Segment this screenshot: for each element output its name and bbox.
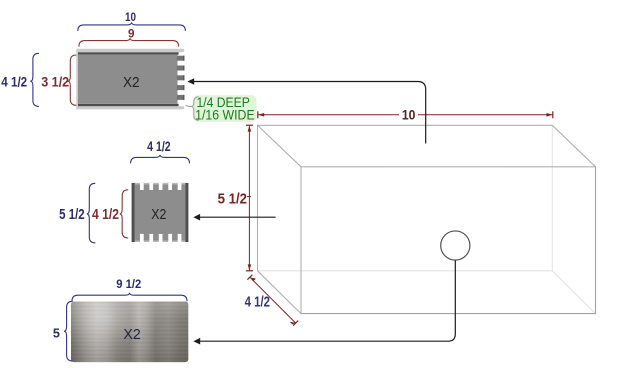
P2 dark stripe left — [132, 183, 135, 242]
P3 brace 9 1/2 (navy, top) — [72, 293, 187, 302]
P2 leader line — [200, 216, 276, 218]
svg-text:10: 10 — [402, 106, 416, 122]
svg-text:1/16 WIDE: 1/16 WIDE — [195, 106, 255, 122]
svg-text:X2: X2 — [123, 326, 140, 343]
svg-text:9 1/2: 9 1/2 — [116, 277, 141, 291]
P3 brushed streaks — [71, 302, 188, 363]
P1 finger teeth tips — [183, 56, 184, 100]
P1 light edge band bottom — [76, 106, 184, 109]
dimension 5 1/2 top tick — [246, 124, 253, 126]
note highlight — [193, 95, 257, 122]
svg-text:X2: X2 — [123, 75, 140, 91]
P1 leader arrowhead — [187, 78, 194, 85]
edge: front-left — [300, 167, 302, 314]
dimension 5 1/2 top arrowhead — [248, 126, 252, 132]
P2 light caps top/bottom — [135, 183, 185, 185]
svg-text:4 1/2: 4 1/2 — [92, 207, 119, 223]
edge: bottom-left oblique — [258, 271, 302, 314]
svg-text:10: 10 — [125, 10, 136, 24]
svg-text:4 1/2: 4 1/2 — [1, 73, 27, 89]
edge: back-left — [257, 125, 259, 270]
edge: top-left oblique — [258, 125, 302, 167]
P1 finger teeth right — [177, 56, 185, 100]
dimension 10 text gap — [399, 108, 418, 121]
P1 brace 10 (navy, top) — [78, 22, 186, 31]
dimension 10 right arrowhead — [546, 113, 552, 117]
circle callout on front face — [441, 231, 470, 260]
dimension 5 1/2 text tick — [247, 196, 251, 198]
P1 dark stripe top — [78, 52, 179, 54]
P2 body — [135, 184, 185, 240]
P3 metal plate — [71, 302, 188, 363]
edge: top-right oblique — [552, 125, 595, 167]
dimension 5 1/2 bottom arrowhead — [248, 264, 252, 270]
P3 brace 5 (navy, left) — [64, 301, 73, 361]
dimension 4 1/2 upper tick — [247, 275, 252, 280]
dimension line 5 1/2 (box left) — [248, 125, 250, 271]
P3 sheen highlight — [71, 302, 188, 363]
P1 dark stripe bottom — [78, 104, 179, 106]
dimension 4 1/2 lower arrowhead — [290, 322, 296, 325]
svg-text:4 1/2: 4 1/2 — [147, 138, 171, 154]
dimension 4 1/2 lower tick — [293, 321, 298, 326]
svg-text:4 1/2: 4 1/2 — [245, 295, 270, 311]
svg-text:X2: X2 — [151, 206, 166, 223]
P1 brace 4 1/2 (navy, left) — [30, 53, 39, 106]
P2 brace 4 1/2 (red, left) — [120, 190, 129, 238]
dimension 10 left arrowhead — [258, 113, 264, 117]
dimension line 10 (box top) — [258, 114, 553, 116]
svg-text:3 1/2: 3 1/2 — [41, 73, 69, 89]
dimension 10 left tick — [257, 111, 259, 118]
edge: front-top — [301, 166, 596, 168]
dimension 5 1/2 bottom tick — [246, 270, 253, 272]
P2 notches top — [140, 183, 181, 190]
hidden edge: back-bottom — [258, 270, 553, 272]
P2 leader arrowhead — [193, 214, 200, 221]
P2 notches bottom — [140, 234, 181, 242]
P2 dark stripe right — [185, 183, 188, 242]
P1 brace 3 1/2 (red, left) — [68, 55, 77, 105]
P1 light edge band top — [76, 49, 184, 53]
dimension line 4 1/2 (box bottom-left oblique) — [250, 277, 296, 323]
P1 body — [78, 55, 178, 104]
svg-text:5: 5 — [53, 326, 60, 341]
P3 leader line — [200, 260, 455, 341]
P2 brace 4 1/2 (navy, top) — [131, 155, 190, 164]
note tail — [186, 105, 192, 106]
edge: back-top — [258, 124, 553, 126]
P1 leader line — [194, 82, 426, 144]
svg-text:5 1/2: 5 1/2 — [59, 207, 85, 223]
dimension 10 right tick — [552, 111, 554, 118]
edge: front-right — [595, 167, 597, 314]
svg-text:5 1/2: 5 1/2 — [218, 190, 247, 207]
hidden edge: bottom-right oblique — [552, 271, 595, 314]
P3 vertical shading — [71, 302, 188, 363]
hidden edge: back-right — [551, 125, 553, 270]
P1 brace 9 (red) — [79, 38, 179, 47]
svg-text:9: 9 — [128, 26, 135, 40]
edge: front-bottom — [301, 313, 596, 315]
P2 brace 5 1/2 (navy, left) — [87, 183, 96, 243]
dimension 4 1/2 upper arrowhead — [250, 278, 256, 282]
P1 light edge band left — [76, 49, 78, 110]
note brace — [191, 97, 199, 121]
P3 leader arrowhead — [193, 338, 200, 345]
